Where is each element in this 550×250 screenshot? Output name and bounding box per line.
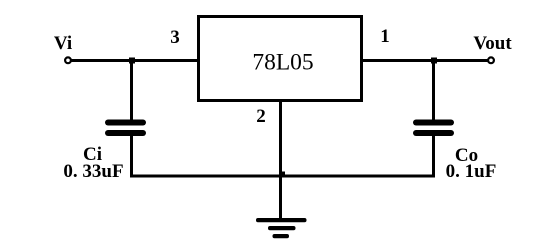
node ground rail junction xyxy=(279,172,285,178)
wire input Vi to pin 3 xyxy=(71,59,198,62)
svg-text:0. 33uF: 0. 33uF xyxy=(63,161,123,182)
ground xyxy=(256,218,307,238)
svg-text:Vout: Vout xyxy=(473,33,512,54)
wire pin 2 down to ground xyxy=(279,100,282,220)
wire bottom rail xyxy=(130,175,435,178)
svg-text:2: 2 xyxy=(256,106,266,127)
wire junction down to Ci xyxy=(130,61,133,122)
svg-text:1: 1 xyxy=(380,26,390,47)
terminal Vout xyxy=(488,57,494,63)
wire Ci down to bottom rail xyxy=(130,134,133,178)
svg-text:3: 3 xyxy=(170,27,180,48)
capacitor Ci xyxy=(105,120,146,137)
capacitor Co xyxy=(413,120,454,137)
svg-text:Vi: Vi xyxy=(54,33,72,54)
svg-text:78L05: 78L05 xyxy=(252,50,313,76)
wire pin 1 to Vout xyxy=(361,59,488,62)
node input junction xyxy=(129,58,135,64)
wire junction down to Co xyxy=(432,61,435,122)
regulator U1 box xyxy=(199,17,362,101)
wire Co down to bottom rail xyxy=(432,134,435,178)
node output junction xyxy=(431,58,437,64)
svg-text:0. 1uF: 0. 1uF xyxy=(446,161,497,182)
terminal Vi xyxy=(65,57,71,63)
